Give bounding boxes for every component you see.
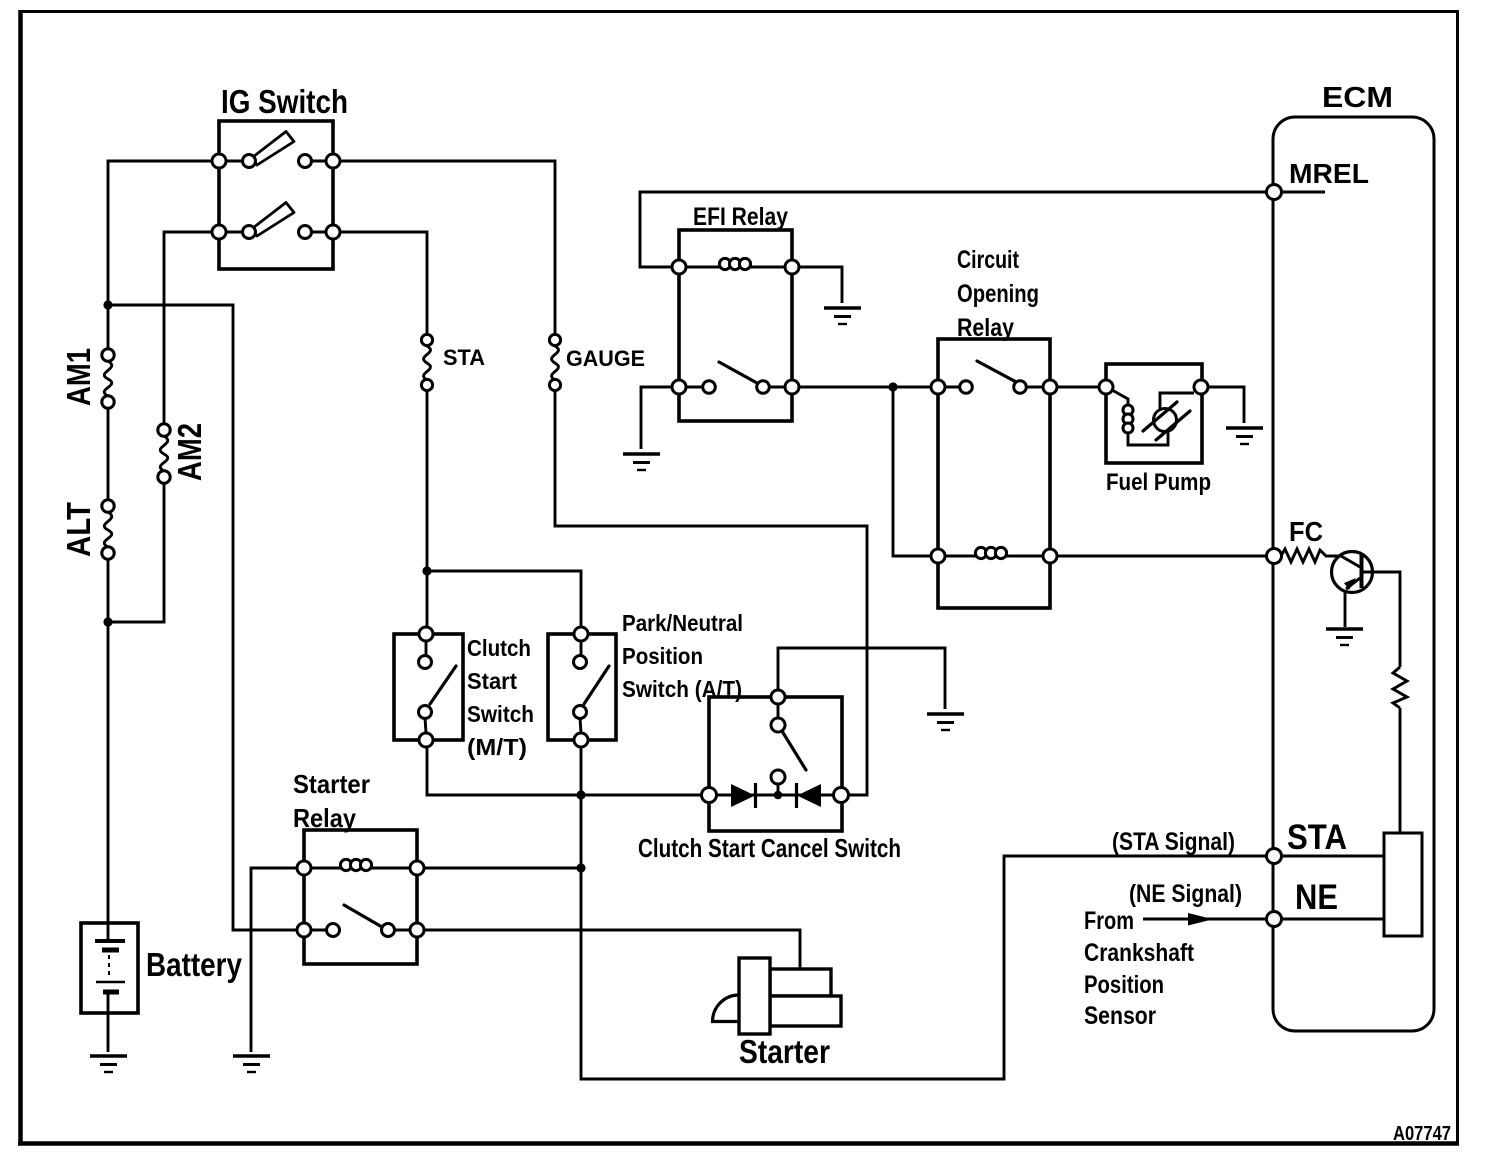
- pin NE stub: [1281, 918, 1384, 921]
- park/neutral position switch blade: [584, 666, 609, 704]
- wire: ALT fuse to battery: [107, 558, 110, 941]
- IG switch contact row 2 stubs: [226, 231, 327, 234]
- starter relay switch blade: [344, 905, 382, 927]
- ground: EFI relay switch: [623, 454, 660, 470]
- wire: IG switch AM1 terminal to AM1 fuse: [108, 161, 219, 350]
- svg-text:Start: Start: [467, 668, 517, 694]
- fuel pump FP box: [1106, 364, 1202, 463]
- wire: junction to circuit opening relay coil: [893, 387, 938, 556]
- svg-text:(STA Signal): (STA Signal): [1112, 828, 1235, 856]
- node NE terminal: [1267, 912, 1282, 927]
- svg-text:(M/T): (M/T): [467, 734, 527, 760]
- svg-text:GAUGE: GAUGE: [566, 346, 645, 371]
- wire: AM1 fuse to ALT fuse: [107, 407, 110, 501]
- wire: clutch start cancel switch to ground: [778, 648, 945, 709]
- svg-text:Starter: Starter: [293, 769, 370, 799]
- wire: transistor collector to resistor: [1361, 572, 1400, 667]
- svg-text:Position: Position: [1084, 971, 1164, 999]
- clutch start cancel switch internal wire: [709, 704, 841, 795]
- ground: transistor emitter: [1326, 629, 1363, 645]
- ground: starter relay coil: [233, 1056, 270, 1072]
- IG switch S1 box: [219, 121, 333, 269]
- svg-text:Circuit: Circuit: [957, 246, 1020, 274]
- clutch start switch blade: [430, 666, 456, 704]
- svg-text:Sensor: Sensor: [1084, 1002, 1156, 1030]
- svg-text:AM1: AM1: [60, 348, 97, 406]
- junction: clutch switch output: [576, 790, 585, 799]
- fuse ALT: [104, 512, 112, 547]
- wire: EFI relay switch to circuit opening relay: [792, 386, 938, 389]
- junction: STA fuse branch: [422, 566, 431, 575]
- wire: EFI relay coil to ground: [792, 267, 842, 303]
- junction: EFI relay output node: [888, 382, 897, 391]
- IG switch contact row 2 terminals: [212, 225, 226, 239]
- pin STA stub: [1281, 855, 1384, 858]
- node FC terminal: [1267, 549, 1282, 564]
- EFI relay switch stubs: [686, 386, 785, 389]
- IG switch contact row 1 stubs: [226, 160, 327, 163]
- wire: EFI relay coil to ECM MREL terminal: [640, 192, 1266, 267]
- wire: starter relay coil to STA signal junction: [417, 867, 581, 870]
- clutch start switch contacts: [419, 627, 433, 641]
- IG switch contact row 1 terminals: [212, 154, 226, 168]
- pin MREL stub: [1281, 191, 1325, 194]
- starter motor M: [713, 958, 842, 1034]
- svg-text:ALT: ALT: [60, 502, 97, 557]
- node MREL terminal: [1267, 185, 1282, 200]
- starter relay coil terminals: [297, 861, 311, 875]
- circuit opening relay switch stubs: [945, 386, 1043, 389]
- clutch start cancel switch contacts: [771, 690, 785, 704]
- fuel pump terminals: [1099, 380, 1113, 394]
- junction: starter relay coil node: [576, 863, 585, 872]
- resistor R1 at FC: [1281, 549, 1341, 562]
- svg-text:STA: STA: [1287, 818, 1347, 857]
- svg-text:Starter: Starter: [739, 1033, 830, 1070]
- fuse GAUGE: [552, 346, 559, 380]
- clutch start cancel switch blade: [782, 731, 806, 770]
- wire: circuit opening relay switch to fuel pump: [1050, 386, 1106, 389]
- fuse AM1: [104, 361, 112, 396]
- wire: starter relay switch output to starter: [417, 930, 800, 969]
- park/neutral position switch contacts: [574, 627, 588, 641]
- wire: circuit opening relay coil to ECM FC terminal: [1050, 555, 1266, 558]
- ground: fuel pump: [1226, 428, 1263, 444]
- junction: node A (AM1/IG feed): [103, 300, 112, 309]
- relay K2 Circuit Opening Relay box: [938, 339, 1050, 608]
- battery BAT: [81, 923, 138, 1013]
- wire: IG switch IG1 output to GAUGE fuse: [333, 161, 555, 335]
- node STA terminal: [1267, 849, 1282, 864]
- svg-text:NE: NE: [1295, 878, 1338, 917]
- ground: battery: [90, 1056, 127, 1072]
- clutch start switch box: [394, 634, 463, 740]
- svg-text:STA: STA: [443, 345, 485, 370]
- svg-text:Park/Neutral: Park/Neutral: [622, 610, 743, 636]
- svg-text:A07747: A07747: [1393, 1123, 1451, 1145]
- park/neutral position switch box: [548, 634, 616, 740]
- fuel pump internal wiring and coil: [1112, 390, 1128, 404]
- svg-text:ECM: ECM: [1322, 82, 1393, 114]
- svg-text:AM2: AM2: [171, 423, 208, 481]
- svg-text:Battery: Battery: [146, 946, 243, 983]
- svg-text:(NE Signal): (NE Signal): [1129, 880, 1242, 908]
- wire: battery to ground: [107, 991, 110, 1052]
- EFI relay switch blade: [719, 362, 757, 383]
- clutch start cancel switch center tap: [777, 784, 780, 793]
- starter relay coil: [311, 859, 410, 870]
- wire: IG switch ST output to STA fuse: [333, 232, 427, 335]
- wire: clutch start switch to clutch start cancel switch: [427, 740, 709, 795]
- IG switch contact row 1 lever: [252, 132, 295, 166]
- svg-text:FC: FC: [1289, 516, 1323, 547]
- wire: branch to park/neutral position switch: [427, 571, 581, 635]
- svg-text:Relay: Relay: [957, 314, 1014, 342]
- clutch start cancel switch box: [709, 697, 842, 831]
- wire: starter relay coil to ground: [251, 868, 304, 1052]
- svg-text:Clutch Start Cancel Switch: Clutch Start Cancel Switch: [638, 833, 901, 863]
- wire: IG switch AM2 terminal to AM2 fuse: [164, 232, 219, 425]
- ECM U1 box: [1273, 117, 1434, 1031]
- resistor R2: [1393, 667, 1407, 708]
- EFI relay coil terminals: [672, 260, 686, 274]
- wire: transistor emitter to ground: [1344, 590, 1347, 627]
- svg-text:Relay: Relay: [293, 803, 356, 833]
- wire: resistor to STA block: [1399, 708, 1402, 833]
- starter relay switch terminals: [297, 923, 311, 937]
- fuse STA: [424, 346, 431, 380]
- fuse AM2: [160, 436, 168, 471]
- diode D1: [731, 783, 756, 808]
- starter relay switch stubs: [311, 929, 410, 932]
- ground: clutch start cancel switch: [927, 714, 964, 730]
- wire: park/neutral position switch to junction: [580, 740, 583, 795]
- transistor Q1: [1332, 552, 1373, 593]
- svg-text:Opening: Opening: [957, 280, 1039, 308]
- circuit opening relay coil: [945, 547, 1043, 558]
- svg-text:Position: Position: [622, 643, 703, 669]
- wire: node A junction to starter relay switch contact: [108, 305, 304, 930]
- wire: AM2 fuse to node B junction: [108, 482, 164, 622]
- svg-text:MREL: MREL: [1289, 158, 1369, 189]
- svg-text:IG Switch: IG Switch: [221, 83, 348, 120]
- wire: EFI relay switch to ground: [641, 387, 679, 449]
- relay K1 EFI Relay box: [679, 230, 792, 421]
- clutch start switch stubs: [425, 641, 426, 733]
- fuel pump motor: [1154, 409, 1177, 432]
- circuit opening relay switch terminals: [931, 380, 945, 394]
- park/neutral position switch stubs: [580, 641, 581, 733]
- EFI relay switch terminals: [672, 380, 686, 394]
- svg-text:Switch: Switch: [467, 701, 534, 727]
- svg-text:EFI Relay: EFI Relay: [693, 203, 788, 231]
- svg-text:From: From: [1084, 907, 1134, 935]
- junction: node B (ALT/AM2): [103, 617, 112, 626]
- NE signal arrow: [1143, 913, 1266, 926]
- circuit opening relay switch blade: [977, 361, 1018, 383]
- IG switch contact row 2 lever: [252, 203, 295, 237]
- circuit opening relay coil terminals: [931, 549, 945, 563]
- wire: STA fuse to clutch start switch: [426, 391, 429, 634]
- svg-text:Clutch: Clutch: [467, 635, 531, 661]
- wire: GAUGE fuse to clutch start cancel switch: [555, 391, 867, 795]
- STA/NE input block: [1384, 833, 1422, 936]
- wire: STA signal line to ECM STA terminal: [581, 795, 1266, 1079]
- relay K3 Starter Relay box: [304, 830, 417, 964]
- EFI relay coil: [686, 258, 785, 269]
- svg-text:Fuel Pump: Fuel Pump: [1106, 469, 1211, 496]
- wire: fuel pump to ground: [1201, 387, 1244, 423]
- ground: EFI relay coil: [824, 308, 861, 324]
- svg-text:Crankshaft: Crankshaft: [1084, 939, 1195, 967]
- diode D2: [797, 783, 822, 808]
